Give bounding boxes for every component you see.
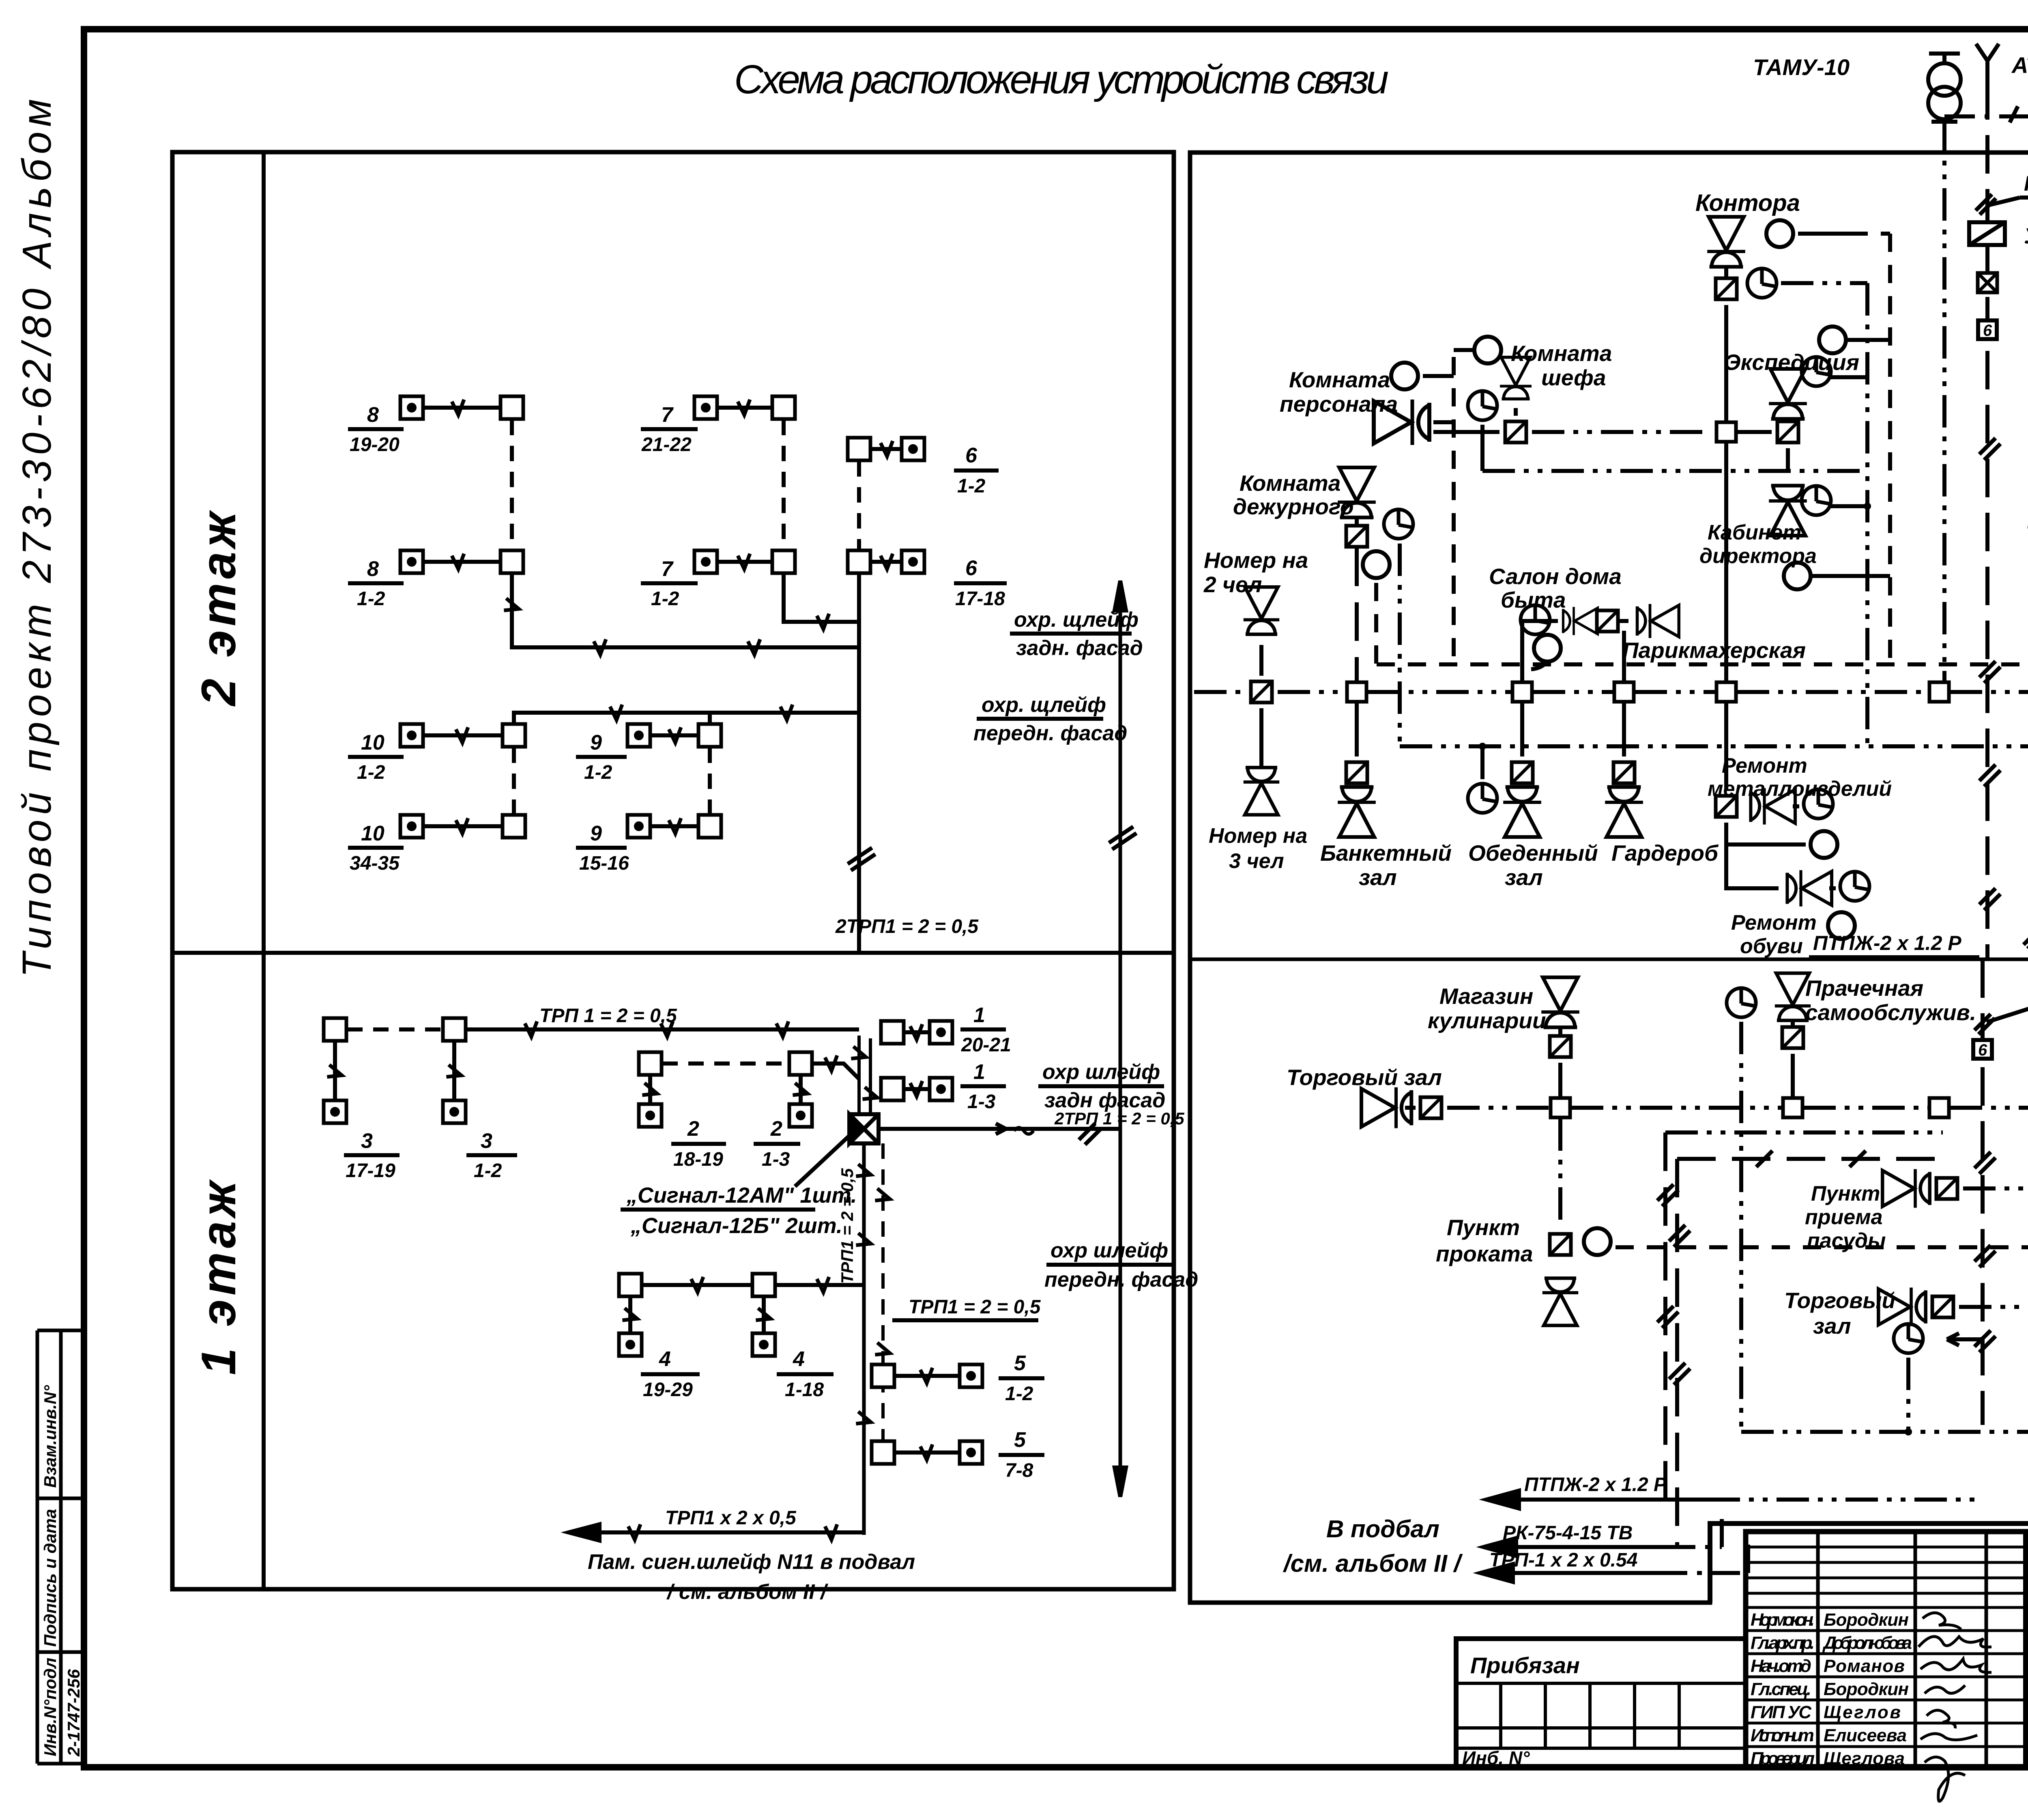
- svg-text:Подпись и дата: Подпись и дата: [41, 1509, 60, 1647]
- svg-text:зал: зал: [1813, 1313, 1851, 1339]
- svg-text:Номер на: Номер на: [1209, 824, 1307, 848]
- svg-text:зал: зал: [1505, 865, 1543, 890]
- svg-text:4: 4: [793, 1347, 805, 1371]
- svg-text:7: 7: [661, 557, 674, 581]
- phone Torgovy zal: [1362, 1087, 1416, 1128]
- room Banketny zal: [1320, 703, 1452, 890]
- RK-75-9-13 cable label: [1976, 172, 2028, 215]
- room Punkt prokata: [1436, 1118, 1611, 1326]
- loop 3/17-19 riser and outlet: [324, 1042, 400, 1182]
- exit line PTPZh: [1499, 1498, 1708, 1502]
- loop 6/17-18: box and outlet: [848, 550, 1007, 610]
- loop 2/1-3 riser and outlet: [754, 1076, 812, 1170]
- numbered box 6 upper: [1978, 320, 1997, 340]
- room Prachechnaya: [1775, 973, 1976, 1097]
- svg-text:передн. фасад: передн. фасад: [1044, 1268, 1198, 1291]
- svg-text:2ТРП1 = 2 = 0,5: 2ТРП1 = 2 = 0,5: [835, 916, 979, 937]
- svg-text:9: 9: [590, 822, 602, 845]
- svg-text:21-22: 21-22: [641, 434, 692, 456]
- crossed box on trunk: [1978, 273, 1997, 292]
- ddd riser clock net: [1865, 283, 1869, 746]
- svg-text:5: 5: [1014, 1352, 1026, 1375]
- svg-text:3 чел: 3 чел: [1229, 849, 1284, 873]
- clock Kabinet: [1802, 486, 1871, 515]
- project section frame: [2026, 1637, 2028, 1642]
- svg-text:кулинарии: кулинарии: [1428, 1008, 1546, 1033]
- socket Komnata shefa: [1505, 421, 1526, 443]
- bell Komnata personala: [1391, 363, 1454, 389]
- room Kabinet direktora label: [1699, 521, 1817, 568]
- loop 4/1-18 riser and outlet: [752, 1297, 834, 1401]
- svg-text:3: 3: [361, 1129, 373, 1153]
- exit line RK: [1496, 1545, 1667, 1549]
- svg-text:2: 2: [770, 1117, 782, 1141]
- svg-text:10: 10: [361, 822, 385, 845]
- svg-text:1-2: 1-2: [357, 762, 385, 783]
- riser nomer to bus: [1259, 645, 1263, 676]
- svg-text:7: 7: [661, 403, 674, 427]
- socket Torgovy zal: [1420, 1097, 1442, 1118]
- svg-text:Прачечная: Прачечная: [1805, 976, 1923, 1001]
- svg-text:Бородкин: Бородкин: [1824, 1679, 1909, 1699]
- title block outer frame: [1746, 1532, 2028, 1767]
- loop 4 row boxes: [619, 1274, 864, 1296]
- svg-text:дежурного: дежурного: [1233, 494, 1354, 519]
- svg-text:19-29: 19-29: [643, 1379, 693, 1401]
- svg-text:Пункт: Пункт: [1811, 1182, 1880, 1205]
- room Obedenny zal: [1468, 703, 1598, 890]
- clock Torgovy floor1: [1894, 1324, 1923, 1432]
- arrow from trunk: [1947, 1333, 1983, 1345]
- basement exit wire: [569, 1507, 864, 1541]
- signal device labels: [621, 1136, 857, 1238]
- svg-text:ТРП-1 х 2 х 0.54: ТРП-1 х 2 х 0.54: [1489, 1549, 1637, 1571]
- loop 3/1-2 riser and outlet: [443, 1042, 517, 1182]
- bell bus dashed floor1: [1616, 1245, 2028, 1249]
- clock Kontora top: [1747, 269, 1867, 298]
- guard loop label rear facade floor2: [1010, 608, 1143, 660]
- loop 10/1-2: outlet and box: [348, 724, 525, 783]
- socket Expeditsia on bus: [1777, 421, 1798, 443]
- svg-text:ТАМУ-10: ТАМУ-10: [1753, 54, 1850, 80]
- trunk riser floor2: [848, 647, 875, 953]
- svg-text:передн. фасад: передн. фасад: [973, 722, 1127, 745]
- svg-text:2: 2: [687, 1117, 699, 1141]
- phone salon: [1563, 607, 1598, 635]
- svg-text:„Сигнал-12АМ" 1шт.: „Сигнал-12АМ" 1шт.: [626, 1183, 857, 1208]
- svg-text:Гардероб: Гардероб: [1611, 840, 1719, 866]
- svg-text:охр шлейф: охр шлейф: [1042, 1060, 1160, 1084]
- svg-text:1-2: 1-2: [651, 588, 679, 610]
- bell dezhurny: [1363, 551, 1390, 664]
- svg-text:Контора: Контора: [1695, 190, 1800, 216]
- riser 4106 with II marks: [1657, 1132, 1943, 1500]
- svg-text:ТРП 1 = 2 = 0,5: ТРП 1 = 2 = 0,5: [539, 1005, 677, 1027]
- vestibule bus ddd: [1741, 1427, 2028, 1436]
- dashed riser expedition: [1888, 234, 1892, 664]
- svg-text:Гл.спец.: Гл.спец.: [1751, 1679, 1811, 1699]
- riser Kontora to main bus: [1724, 443, 1728, 681]
- svg-text:/см. альбом II /: /см. альбом II /: [1283, 1550, 1463, 1577]
- svg-text:17-18: 17-18: [955, 588, 1005, 610]
- pribyazan box: [1456, 1639, 1746, 1768]
- label TRP mid floor1: [892, 1296, 1041, 1320]
- svg-text:Ремонт: Ремонт: [1722, 754, 1807, 778]
- svg-text:10: 10: [361, 731, 385, 754]
- svg-text:Ремонт: Ремонт: [1731, 911, 1817, 935]
- svg-text:ТРП1 х 2 х 0,5: ТРП1 х 2 х 0,5: [665, 1507, 797, 1529]
- bell salon: [1531, 635, 1561, 669]
- riser 4135 with II marks: [1669, 1151, 1943, 1546]
- wire 9 dashed riser: [708, 748, 712, 814]
- svg-text:2-1747-256: 2-1747-256: [64, 1669, 83, 1757]
- svg-text:охр шлейф: охр шлейф: [1051, 1239, 1168, 1262]
- concentrator node box: [849, 1114, 879, 1143]
- loop 7/21-22: outlet and box: [641, 396, 795, 456]
- socket Komnata dezhurnogo: [1346, 526, 1367, 547]
- room Komnata shefa label: [1511, 341, 1612, 390]
- node riser bundle: [849, 1036, 879, 1114]
- svg-text:Прибязан: Прибязан: [1470, 1652, 1580, 1678]
- svg-text:РК-75-9-13 ТВ: РК-75-9-13 ТВ: [2024, 172, 2028, 196]
- phone Komnata personala: [1374, 400, 1454, 445]
- basement exit caption: [588, 1550, 915, 1604]
- speaker Expeditsia: [1769, 369, 1807, 430]
- room Punkt priema posudy: [1805, 1169, 2028, 1253]
- right panel floor divider: [1190, 958, 2028, 961]
- guard loop label front facade floor1: [1044, 1239, 1198, 1291]
- guard loop arrow line: [1109, 581, 1136, 1497]
- svg-text:Схема расположения устройств: Схема расположения устройств связи: [734, 57, 1391, 102]
- svg-text:9: 9: [590, 731, 602, 754]
- svg-text:19-20: 19-20: [350, 434, 400, 456]
- svg-text:1: 1: [973, 1060, 985, 1084]
- svg-text:Комната: Комната: [1289, 367, 1390, 392]
- guard loop label rear facade floor1: [1038, 1060, 1165, 1112]
- node output wire right: [879, 1109, 1184, 1145]
- svg-text:Проверил: Проверил: [1751, 1749, 1815, 1768]
- clock line to riser: [1482, 469, 1867, 473]
- svg-text:Обеденный: Обеденный: [1468, 840, 1598, 866]
- svg-text:/ см. альбом II /: / см. альбом II /: [666, 1580, 829, 1604]
- loop 5/7-8 box and outlet: [872, 1428, 1044, 1481]
- clock salon: [1521, 605, 1550, 634]
- room Garderob: [1605, 703, 1719, 866]
- phone parikmakherskaya: [1618, 604, 1679, 638]
- loop 9/1-2: outlet and box: [576, 724, 721, 783]
- riser parikmakherskaya: [1622, 631, 1626, 681]
- label PRPPM cable: [2024, 876, 2028, 949]
- wire 8 dashed riser: [510, 420, 514, 550]
- clock Komnata shefa: [1468, 391, 1497, 471]
- bell Komnata shefa: [1454, 337, 1501, 363]
- room Magazin kulinarii: [1428, 978, 1579, 1098]
- svg-text:обуви: обуви: [1740, 935, 1803, 958]
- svg-text:5: 5: [1014, 1428, 1026, 1452]
- wire 8 to bus: [502, 574, 859, 655]
- loop 2/18-19 riser and outlet: [639, 1076, 726, 1170]
- main bus floor2: [1194, 690, 2028, 694]
- loop 4/19-29 riser and outlet: [619, 1297, 700, 1401]
- svg-text:приема: приема: [1805, 1205, 1883, 1229]
- riser dezhurny to bus: [1355, 548, 1359, 681]
- room Komnata dezhurnogo label: [1233, 471, 1354, 519]
- floor1 mid row boxes: [639, 1052, 859, 1079]
- signature squiggles: [1918, 1613, 1991, 1801]
- socket Nomer na bus: [1251, 681, 1272, 703]
- speaker Kontora top: [1707, 217, 1745, 278]
- svg-text:Гл.арх.пр.: Гл.арх.пр.: [1751, 1633, 1815, 1653]
- exit line TRP: [1493, 1571, 1659, 1575]
- svg-text:6: 6: [1978, 1041, 1987, 1059]
- loop 1/20-21 box and outlet: [881, 1003, 1011, 1056]
- left panel floor divider line: [172, 951, 1174, 955]
- socket Kontora top: [1716, 278, 1737, 299]
- svg-text:15-16: 15-16: [579, 853, 629, 874]
- svg-text:1-3: 1-3: [762, 1149, 790, 1170]
- svg-text:Магазин: Магазин: [1439, 984, 1533, 1009]
- loop 5/1-2 box and outlet: [872, 1352, 1044, 1405]
- svg-text:быта: быта: [1501, 587, 1566, 612]
- svg-text:6: 6: [965, 557, 977, 580]
- loop 1/1-3 box and outlet: [881, 1060, 1006, 1113]
- svg-text:1-2: 1-2: [474, 1160, 502, 1182]
- svg-text:3: 3: [481, 1129, 492, 1153]
- svg-text:Исполнит.: Исполнит.: [1751, 1725, 1815, 1745]
- room Nomer na 2 chel label: [1203, 548, 1308, 597]
- TP doc number box: [2026, 1594, 2028, 1599]
- svg-text:1-2: 1-2: [357, 588, 385, 610]
- left margin cells column: [37, 1330, 84, 1764]
- clock bus ddd floor2: [1400, 743, 2028, 750]
- antenna ATVK: [1976, 44, 2028, 81]
- wire 10 dashed riser: [512, 748, 516, 814]
- speaker Komnata shefa: [1500, 357, 1532, 416]
- room Remont metalloizdeliy: [1708, 703, 1892, 872]
- svg-text:Романов: Романов: [1824, 1656, 1905, 1676]
- svg-text:ТРП1 = 2 = 0,5: ТРП1 = 2 = 0,5: [838, 1168, 857, 1284]
- bell Kontora top: [1766, 220, 1890, 247]
- left panel frame: [172, 152, 1174, 1589]
- dashed riser shef: [1452, 357, 1456, 664]
- svg-text:20-21: 20-21: [961, 1034, 1011, 1056]
- svg-text:Щеглова: Щеглова: [1824, 1749, 1905, 1768]
- svg-text:Инб. N°: Инб. N°: [1462, 1747, 1530, 1768]
- TAMU riser: [1942, 119, 1946, 681]
- loop 8/19-20: outlet and box: [348, 396, 523, 456]
- UTTO device: [1969, 222, 2028, 248]
- grounding bus top: [1944, 84, 2028, 122]
- signature rows text: [1751, 1610, 1912, 1768]
- svg-text:Торговый зал: Торговый зал: [1287, 1065, 1442, 1090]
- svg-text:РК-75-4-15 ТВ: РК-75-4-15 ТВ: [1503, 1522, 1633, 1544]
- svg-text:задн. фасад: задн. фасад: [1016, 636, 1143, 660]
- basement exits: [1283, 1474, 1979, 1582]
- svg-text:„Сигнал-12Б" 2шт.: „Сигнал-12Б" 2шт.: [630, 1214, 842, 1238]
- svg-text:Пам. сигн.шлейф N11 в подвал: Пам. сигн.шлейф N11 в подвал: [588, 1550, 915, 1574]
- svg-text:Нормокон.: Нормокон.: [1751, 1610, 1815, 1630]
- svg-text:1-18: 1-18: [785, 1379, 824, 1401]
- bell Expeditsia: [1819, 327, 1890, 353]
- svg-text:1-2: 1-2: [1005, 1383, 1033, 1405]
- right panel frame: [1190, 153, 2028, 1603]
- svg-text:8: 8: [367, 557, 379, 581]
- room Remont obuvi: [1726, 870, 1869, 958]
- TAMU-10 transformer: [1753, 54, 1961, 122]
- svg-text:2 чел: 2 чел: [1203, 572, 1262, 597]
- signature table frame: [1746, 1532, 2026, 1767]
- clock Kontora floor2: [2028, 513, 2028, 542]
- RK-75-4-15 cable label upper: [1974, 954, 2028, 1034]
- ATVK trunk riser: [1974, 81, 2000, 1425]
- svg-text:7-8: 7-8: [1005, 1460, 1033, 1481]
- salon branch line: [1522, 621, 1558, 681]
- room Salon doma byta label: [1489, 564, 1622, 612]
- wire 6 riser to bus: [857, 574, 861, 647]
- riser Kontora down: [1724, 305, 1728, 421]
- svg-text:Типовой проект 273-30-62/80: Типовой проект 273-30-62/80 Альбом: [14, 97, 60, 978]
- svg-text:Елисеева: Елисеева: [1824, 1725, 1907, 1745]
- left panel floor column divider: [262, 152, 266, 1589]
- label PTPZh on divider: [1809, 932, 1979, 957]
- svg-text:1: 1: [973, 1003, 985, 1027]
- svg-text:ПТПЖ-2 х 1.2 Р: ПТПЖ-2 х 1.2 Р: [1524, 1474, 1667, 1496]
- svg-text:34-35: 34-35: [350, 853, 400, 874]
- junctions on floor1 bus: [1551, 1098, 1570, 1117]
- loop 10/34-35: outlet and box: [348, 815, 525, 874]
- wire 7 dashed riser: [782, 420, 786, 550]
- speaker Komnata dezhurnogo: [1338, 468, 1376, 524]
- upper bus floor2: [1433, 430, 1772, 434]
- svg-text:Пункт: Пункт: [1447, 1215, 1520, 1240]
- svg-text:1-2: 1-2: [957, 475, 986, 497]
- svg-text:Инв.N°подл: Инв.N°подл: [41, 1658, 60, 1756]
- loop 9/15-16: outlet and box: [576, 815, 721, 874]
- svg-text:ТРП1 = 2 = 0,5: ТРП1 = 2 = 0,5: [909, 1296, 1041, 1318]
- junction on upper bus: [1716, 422, 1736, 442]
- title block band top line: [1710, 1523, 2028, 1603]
- main bus floor1: [1447, 1106, 2028, 1110]
- svg-text:Нач.отд: Нач.отд: [1751, 1656, 1811, 1676]
- bell bus dashed floor2: [1377, 662, 2028, 666]
- svg-text:зал: зал: [1359, 865, 1397, 890]
- speaker up Kabinet: [1769, 486, 1807, 535]
- svg-text:1-3: 1-3: [967, 1091, 996, 1113]
- svg-text:АТВК: АТВК: [2011, 52, 2028, 78]
- svg-text:1-2: 1-2: [584, 762, 612, 783]
- svg-text:Салон дома: Салон дома: [1489, 564, 1622, 589]
- trunk riser floor1 below node: [838, 1143, 892, 1535]
- room Nomer na 3 chel: [1209, 708, 1307, 873]
- bell Kabinet: [1784, 563, 1890, 589]
- svg-text:1 этаж: 1 этаж: [191, 1177, 246, 1375]
- svg-text:охр. щлейф: охр. щлейф: [982, 693, 1106, 717]
- clock dezhurny: [1384, 509, 1413, 746]
- svg-text:6: 6: [965, 444, 977, 467]
- riser Expeditsia down: [1786, 448, 1790, 471]
- svg-text:Кабинет: Кабинет: [1708, 521, 1801, 544]
- svg-text:18-19: 18-19: [673, 1149, 723, 1170]
- svg-text:ГИП УС: ГИП УС: [1751, 1702, 1812, 1722]
- svg-text:Комната: Комната: [1240, 471, 1341, 496]
- floor1 top row boxes: [324, 1005, 859, 1041]
- clock Prachechnaya: [1727, 988, 1756, 1432]
- room Torgovy zal floor1: [1784, 1287, 2028, 1339]
- bus floor2 lower: [514, 705, 859, 723]
- svg-text:ПТПЖ-2 х 1.2 Р: ПТПЖ-2 х 1.2 Р: [1813, 932, 1961, 954]
- clock Expeditsia: [1802, 357, 1867, 386]
- svg-text:2 этаж: 2 этаж: [191, 508, 246, 707]
- svg-text:17-19: 17-19: [346, 1160, 395, 1182]
- junction boxes on main bus: [1347, 682, 1366, 702]
- svg-text:Взам.инв.N°: Взам.инв.N°: [41, 1385, 60, 1488]
- svg-text:Добролюбова: Добролюбова: [1822, 1633, 1912, 1653]
- svg-text:самообслужив.: самообслужив.: [1805, 1000, 1976, 1025]
- svg-text:УТТО: УТТО: [2024, 224, 2028, 248]
- svg-text:шефа: шефа: [1541, 365, 1606, 390]
- wire 6 dashed riser: [857, 461, 861, 550]
- svg-text:проката: проката: [1436, 1241, 1533, 1266]
- svg-text:4: 4: [659, 1347, 671, 1371]
- socket salon: [1597, 610, 1618, 632]
- svg-text:Банкетный: Банкетный: [1320, 840, 1452, 866]
- svg-text:8: 8: [367, 403, 379, 427]
- svg-text:2ТРП 1 = 2 = 0,5: 2ТРП 1 = 2 = 0,5: [1054, 1109, 1184, 1128]
- phone Nomer na 2chel vertical: [1244, 587, 1279, 634]
- loop 6/1-2: box and outlet: [848, 438, 999, 497]
- wire 7 to trunk: [784, 574, 859, 629]
- svg-text:Комната: Комната: [1511, 341, 1612, 366]
- svg-text:В подбал: В подбал: [1326, 1515, 1439, 1543]
- svg-text:6: 6: [1983, 322, 1992, 340]
- loop 7/1-2: outlet and box: [641, 550, 795, 610]
- svg-text:Номер на: Номер на: [1204, 548, 1308, 573]
- guard loop label front facade floor2: [973, 693, 1127, 745]
- numbered box 6 lower: [1973, 1040, 1992, 1059]
- room Komnata personala upper-left label: [1280, 367, 1398, 417]
- svg-text:Парикмахерская: Парикмахерская: [1622, 638, 1806, 663]
- loop 8/1-2: outlet and box: [348, 550, 523, 610]
- svg-text:Бородкин: Бородкин: [1824, 1610, 1909, 1630]
